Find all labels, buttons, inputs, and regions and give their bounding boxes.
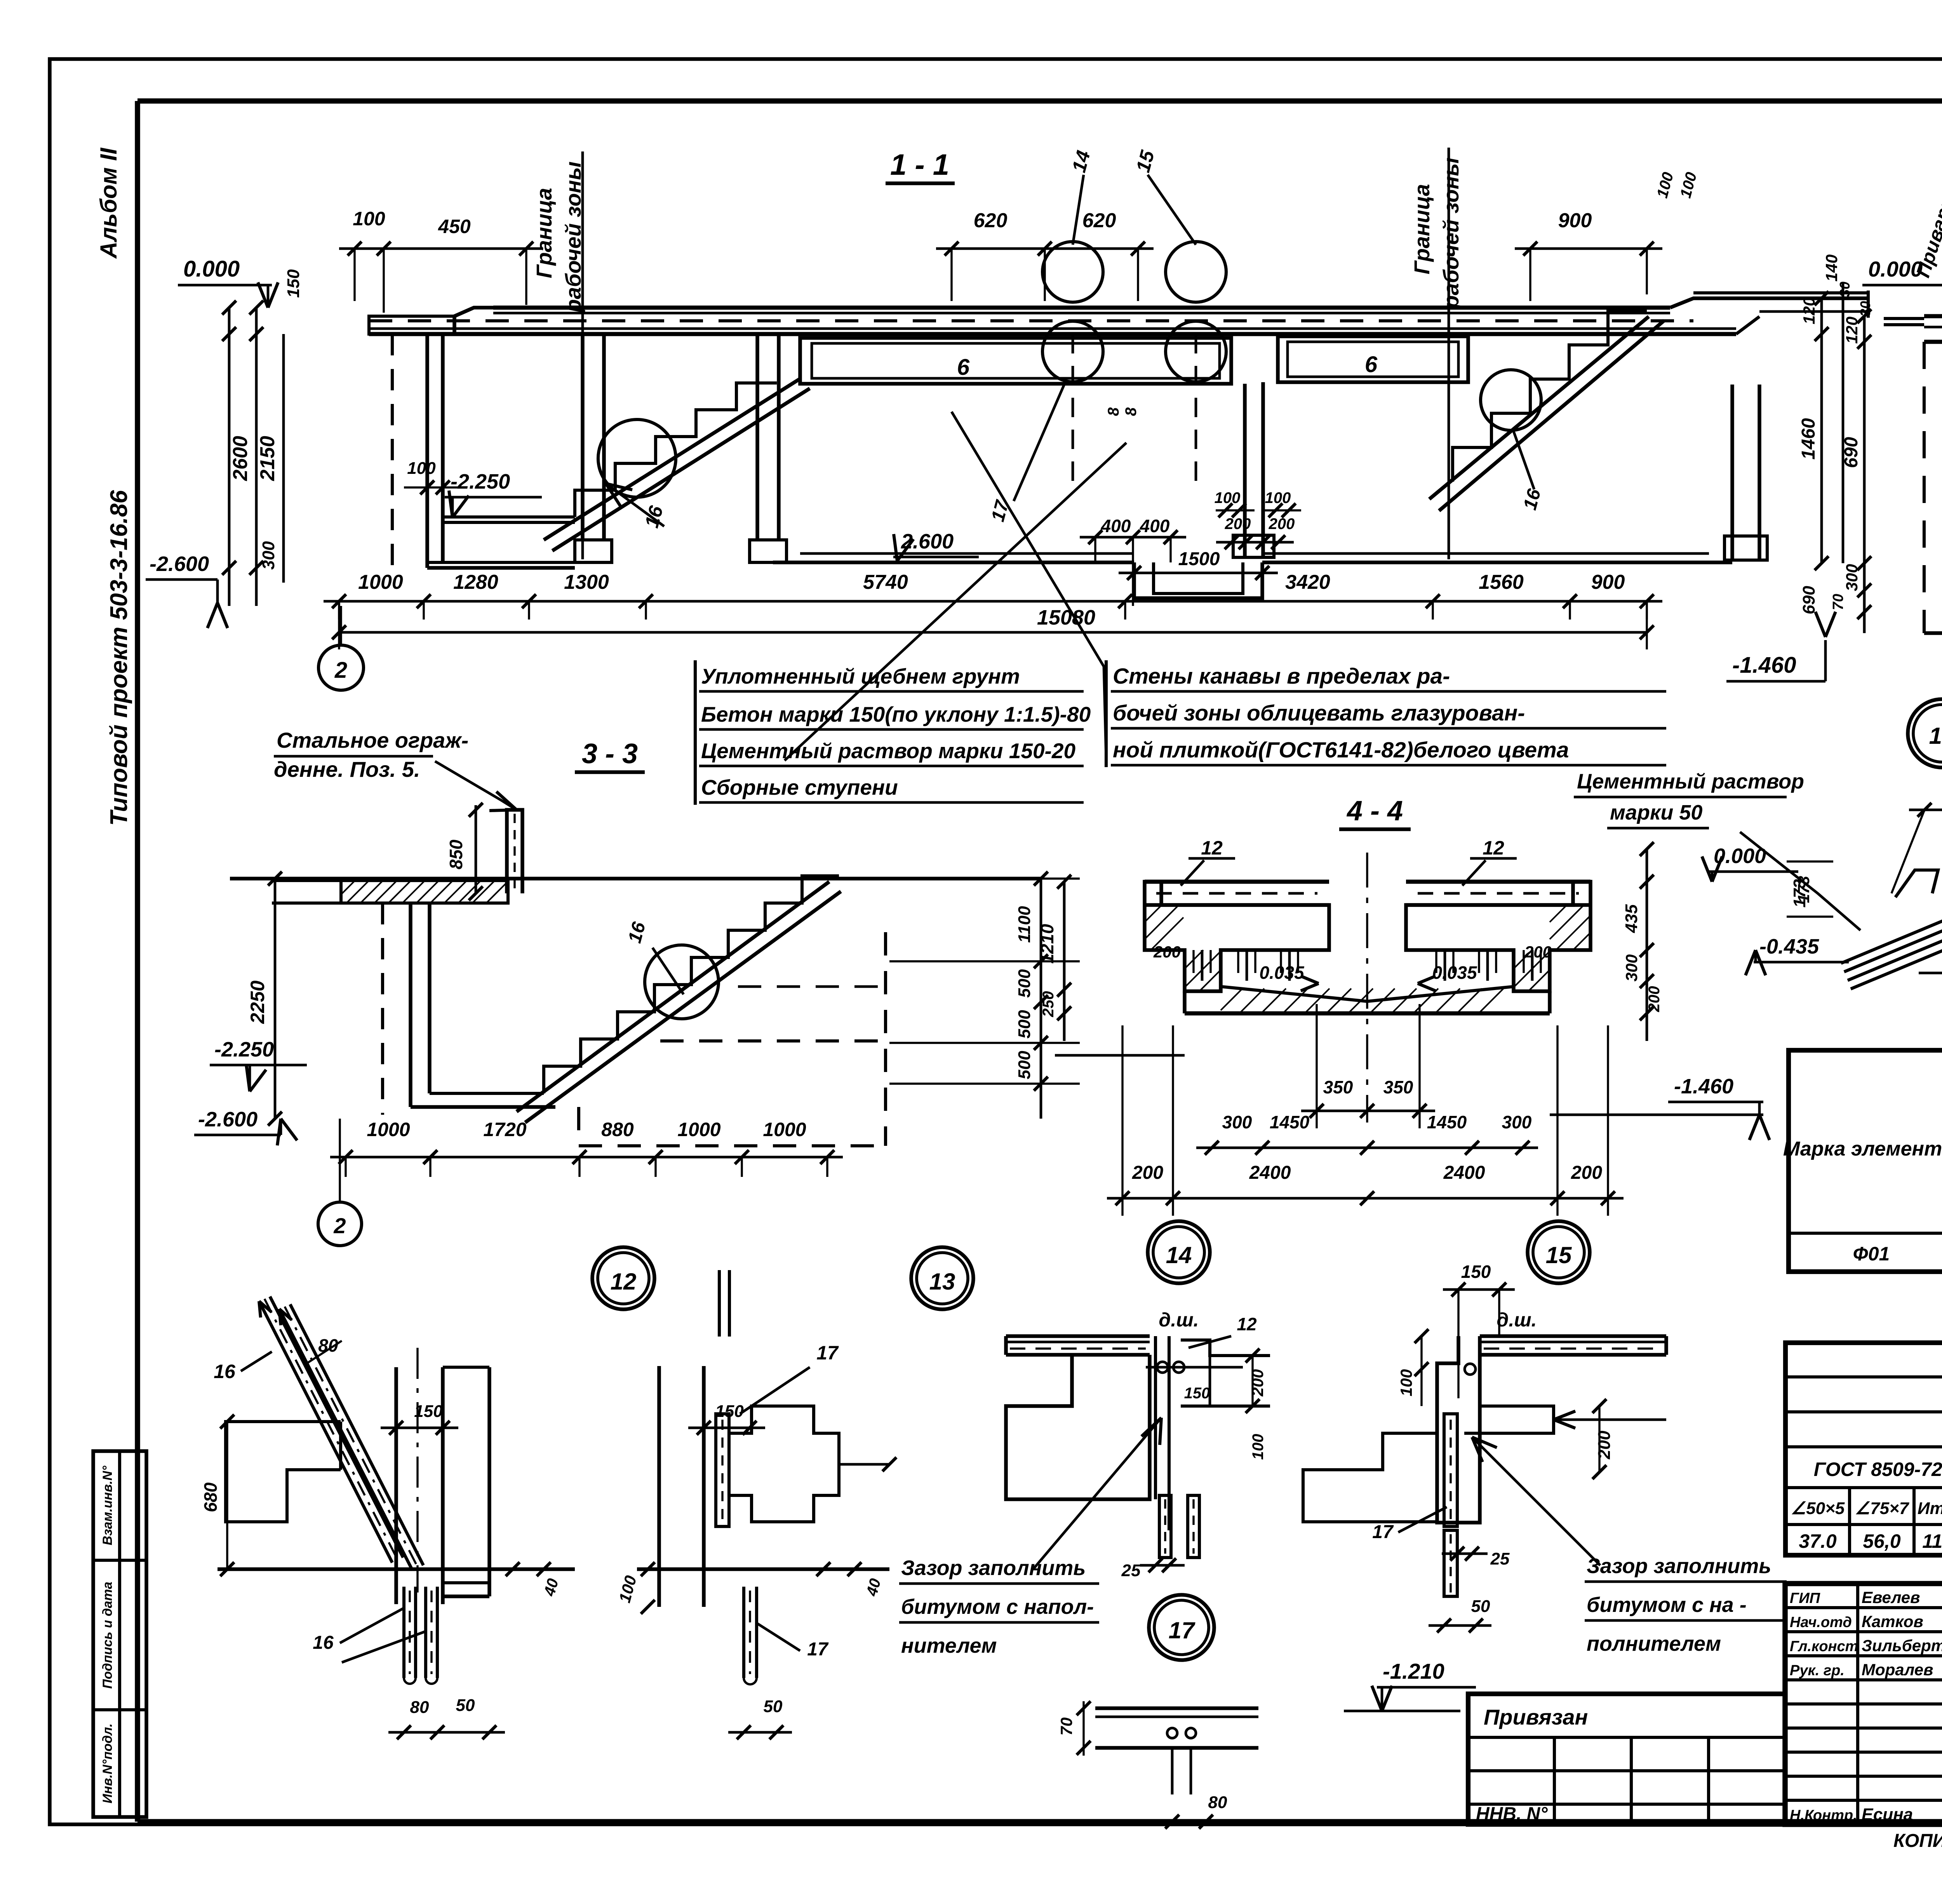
svg-text:2250: 2250: [247, 980, 268, 1024]
svg-text:100: 100: [353, 208, 385, 230]
svg-text:1000: 1000: [358, 571, 403, 593]
d.sh. detail right slab: [1480, 1334, 1666, 1338]
svg-text:15: 15: [1132, 148, 1159, 174]
3-3 dashed existing steps: [579, 1107, 889, 1146]
3-3 dim 850: [475, 805, 477, 893]
svg-text:КОПИРОВАЛ: СИДОРОВА: КОПИРОВАЛ: СИДОРОВА: [1893, 1831, 1942, 1851]
3-3 top slab hatched: [341, 881, 508, 903]
element 16 wall: [394, 1367, 398, 1604]
svg-text:100: 100: [1677, 171, 1700, 200]
svg-text:1000: 1000: [367, 1119, 410, 1140]
embed detail element 16 elevation: [259, 1301, 392, 1563]
d.sh. right embed bar: [1444, 1530, 1457, 1596]
1-1 right pit wall: [1730, 385, 1734, 559]
1-1 slab right end: [1670, 298, 1868, 308]
svg-text:1100: 1100: [1015, 906, 1034, 943]
svg-text:37.0: 37.0: [1799, 1530, 1837, 1552]
svg-text:Граница: Граница: [1410, 184, 1434, 275]
svg-text:1 - 1: 1 - 1: [890, 148, 949, 181]
svg-text:200: 200: [1248, 1369, 1267, 1397]
svg-text:70: 70: [1830, 594, 1846, 610]
4-4 right wall block: [1406, 882, 1590, 991]
svg-text:нителем: нителем: [901, 1634, 997, 1657]
drawing inner frame: [135, 101, 140, 1822]
svg-text:3 - 3: 3 - 3: [582, 738, 638, 769]
svg-text:120: 120: [1843, 317, 1861, 344]
svg-text:100: 100: [1654, 171, 1677, 200]
d.sh. detail left slab: [1006, 1334, 1150, 1338]
svg-text:Зильбертов: Зильбертов: [1862, 1636, 1942, 1655]
1-1 pit floor base -2.600: [427, 561, 575, 564]
svg-text:Типовой проект 503-3-16.86: Типовой проект 503-3-16.86: [106, 490, 132, 826]
title block signature table: [1785, 1584, 1942, 1824]
svg-text:ной плиткой(ГОСТ6141-82)белого: ной плиткой(ГОСТ6141-82)белого цвета: [1113, 738, 1569, 762]
element 16 right slab: [443, 1366, 489, 1369]
svg-text:15080: 15080: [1037, 606, 1095, 629]
svg-text:3420: 3420: [1285, 571, 1330, 593]
svg-text:50: 50: [764, 1697, 783, 1716]
svg-text:56,0: 56,0: [1863, 1530, 1901, 1552]
1-1 left stair detail circle 16: [598, 419, 676, 497]
svg-text:Бетон марки 150(по уклону 1:1.: Бетон марки 150(по уклону 1:1.5)-80: [701, 702, 1091, 726]
svg-text:12: 12: [1201, 837, 1223, 859]
1-1 axis 2: [318, 645, 364, 690]
svg-text:Зазор заполнить: Зазор заполнить: [1587, 1554, 1771, 1578]
embedded items table: [1785, 1343, 1942, 1555]
element 17 embed bar: [742, 1587, 745, 1678]
1-1 floor slab: [493, 306, 1670, 310]
svg-text:150: 150: [1461, 1262, 1491, 1282]
svg-text:350: 350: [1323, 1077, 1353, 1097]
svg-text:113.0: 113.0: [1922, 1530, 1942, 1552]
svg-text:Рук. гр.: Рук. гр.: [1790, 1662, 1845, 1679]
2-2 left dim chain: [1863, 316, 1866, 633]
d.sh. left embed bars: [1159, 1495, 1171, 1558]
svg-text:Сборные ступени: Сборные ступени: [701, 775, 898, 799]
svg-text:-1.460: -1.460: [1732, 653, 1796, 678]
1-1 working zone boundary right: [1448, 148, 1450, 559]
svg-text:200: 200: [1571, 1163, 1602, 1183]
svg-text:8: 8: [1105, 407, 1122, 416]
svg-text:д.ш.: д.ш.: [1497, 1309, 1537, 1331]
svg-text:350: 350: [1383, 1077, 1413, 1097]
1-1 left dim chain: [228, 308, 231, 606]
1-1 left stair: [575, 383, 777, 517]
svg-text:16: 16: [313, 1632, 334, 1653]
svg-text:880: 880: [601, 1119, 634, 1140]
svg-text:25: 25: [1490, 1549, 1510, 1568]
detail circle 12: [592, 1247, 654, 1309]
svg-text:300: 300: [1843, 564, 1861, 591]
1-1 sump leader: [952, 412, 1106, 760]
svg-text:6: 6: [1365, 352, 1378, 377]
1-1 sump: [1134, 562, 1262, 598]
svg-text:40: 40: [541, 1577, 562, 1598]
1-1 weld detail circles 14 15: [1042, 242, 1103, 302]
d.sh. right embedded plate: [1444, 1414, 1457, 1526]
svg-text:15: 15: [1546, 1242, 1572, 1268]
svg-text:100: 100: [1215, 489, 1241, 506]
svg-text:Стены канавы в пределах ра-: Стены канавы в пределах ра-: [1113, 664, 1450, 689]
svg-text:полнителем: полнителем: [1587, 1632, 1721, 1655]
svg-text:1000: 1000: [677, 1119, 720, 1140]
svg-text:-2.250: -2.250: [214, 1038, 274, 1061]
svg-text:620: 620: [974, 209, 1008, 232]
element 16 ground line: [218, 1567, 575, 1571]
4-4 level lines: [1055, 1054, 1185, 1057]
svg-text:битумом с напол-: битумом с напол-: [901, 1595, 1094, 1619]
svg-text:Есина: Есина: [1862, 1805, 1913, 1824]
svg-text:1560: 1560: [1479, 571, 1524, 593]
svg-text:ГОСТ 8509-72*: ГОСТ 8509-72*: [1814, 1458, 1942, 1480]
3-3 steel angle: [507, 810, 522, 893]
svg-text:173: 173: [1790, 879, 1809, 907]
element 16 left block: [226, 1422, 341, 1522]
svg-text:2: 2: [334, 658, 347, 683]
svg-text:200: 200: [1524, 943, 1552, 961]
svg-text:1500: 1500: [1178, 549, 1220, 569]
svg-text:100: 100: [1397, 1369, 1415, 1396]
detail circle 14: [1148, 1221, 1210, 1283]
1-1 slab left end plate: [369, 316, 454, 334]
svg-text:500: 500: [1015, 1010, 1034, 1039]
svg-text:100: 100: [407, 459, 436, 478]
svg-text:∠50×5: ∠50×5: [1791, 1499, 1845, 1518]
svg-text:140: 140: [1822, 254, 1841, 282]
svg-text:80: 80: [1208, 1793, 1227, 1812]
svg-text:Стальное ограж-: Стальное ограж-: [277, 728, 468, 752]
1-1 working zone boundary left: [581, 151, 584, 559]
svg-text:150: 150: [414, 1402, 443, 1421]
svg-text:6: 6: [957, 355, 970, 380]
svg-text:2.600: 2.600: [901, 530, 954, 553]
svg-text:13: 13: [929, 1269, 955, 1295]
svg-text:25: 25: [1121, 1561, 1141, 1580]
svg-text:1720: 1720: [483, 1119, 526, 1140]
svg-text:150: 150: [1184, 1385, 1210, 1402]
svg-text:690: 690: [1841, 437, 1862, 468]
svg-text:620: 620: [1082, 209, 1116, 232]
1-1 left pit wall: [391, 334, 394, 568]
svg-text:Зазор заполнить: Зазор заполнить: [901, 1556, 1086, 1580]
svg-text:1300: 1300: [564, 571, 609, 593]
svg-text:ГИП: ГИП: [1790, 1590, 1820, 1606]
svg-text:бочей зоны облицевать глазуров: бочей зоны облицевать глазурован-: [1113, 701, 1525, 726]
detail circle 15: [1528, 1221, 1590, 1283]
svg-text:0.035: 0.035: [1432, 962, 1477, 983]
d.sh. left block: [1006, 1355, 1150, 1499]
svg-text:40: 40: [863, 1577, 884, 1598]
svg-text:Приварить: Приварить: [1912, 166, 1942, 280]
detail circle 16: [1908, 699, 1942, 768]
svg-text:ННВ. N°: ННВ. N°: [1476, 1804, 1548, 1824]
d.sh. bottom plan detail: [1095, 1706, 1258, 1710]
svg-text:12: 12: [1483, 837, 1504, 859]
4-4 top slabs: [1145, 880, 1329, 884]
3-3 right dim chain: [1040, 879, 1042, 1119]
svg-text:200: 200: [1646, 986, 1663, 1013]
3-3 axis 2: [318, 1202, 362, 1246]
svg-text:1000: 1000: [763, 1119, 806, 1140]
svg-text:100: 100: [615, 1573, 640, 1605]
svg-text:30: 30: [1837, 282, 1853, 297]
svg-text:5740: 5740: [863, 571, 908, 593]
svg-text:300: 300: [1502, 1112, 1532, 1132]
steel consumption table: [1789, 1050, 1942, 1272]
svg-text:16: 16: [1520, 487, 1545, 512]
3-3 stairs: [544, 876, 839, 1093]
svg-text:-1.210: -1.210: [1383, 1659, 1444, 1683]
1-1 middle pillar: [1243, 384, 1247, 557]
4-4 embed studs: [1201, 950, 1204, 981]
svg-text:рабочей зоны: рабочей зоны: [561, 162, 585, 313]
svg-text:30: 30: [1857, 301, 1873, 317]
svg-text:Уплотненный щебнем грунт: Уплотненный щебнем грунт: [701, 664, 1020, 688]
1-1 right dim chains: [1820, 298, 1823, 563]
svg-text:50: 50: [456, 1696, 475, 1715]
notes block: channel walls tiling: [1105, 660, 1108, 767]
svg-text:250: 250: [1040, 991, 1057, 1018]
svg-text:Цементный раствор марки 150-20: Цементный раствор марки 150-20: [701, 739, 1075, 763]
1-1 total dim 15080: [339, 631, 1647, 634]
4-4 centerline: [1366, 853, 1368, 1123]
2-2 excavation dashed lines: [1923, 342, 1926, 633]
d.sh. joint left: [1154, 1336, 1157, 1499]
svg-text:денне. Поз. 5.: денне. Поз. 5.: [274, 757, 420, 781]
svg-text:Альбом II: Альбом II: [96, 147, 122, 259]
4-4 left dim chain: [1063, 882, 1066, 1041]
1-1 pit floor -2.250 slab: [443, 515, 575, 519]
svg-text:Гл.конст: Гл.конст: [1790, 1638, 1858, 1655]
svg-text:200: 200: [1132, 1163, 1163, 1183]
svg-text:200: 200: [1595, 1431, 1614, 1460]
svg-text:16: 16: [1929, 723, 1942, 749]
svg-text:690: 690: [1799, 586, 1818, 614]
svg-text:12: 12: [611, 1269, 637, 1295]
1-1 bottom dim row: [324, 600, 1662, 603]
svg-text:14: 14: [1166, 1242, 1192, 1268]
svg-text:1450: 1450: [1427, 1112, 1467, 1132]
margin stamp column: [93, 1451, 146, 1817]
svg-text:Подпись и дата: Подпись и дата: [100, 1582, 115, 1689]
svg-text:Инв.N°подл.: Инв.N°подл.: [100, 1723, 115, 1803]
svg-text:Ф01: Ф01: [1853, 1243, 1890, 1265]
svg-text:150: 150: [284, 269, 303, 298]
svg-text:Привязан: Привязан: [1484, 1705, 1588, 1729]
3-3 pit walls: [381, 903, 384, 1115]
detail circle 17: [1149, 1595, 1214, 1660]
4-4 right dim chain: [1646, 849, 1648, 1041]
svg-text:200: 200: [1269, 515, 1295, 533]
svg-text:200: 200: [1225, 515, 1251, 533]
detail circle 13: [911, 1247, 973, 1309]
svg-text:Граница: Граница: [532, 188, 556, 278]
svg-text:марки 50: марки 50: [1610, 801, 1702, 824]
svg-text:200: 200: [1153, 943, 1181, 961]
svg-text:-2.250: -2.250: [451, 470, 510, 493]
svg-text:д.ш.: д.ш.: [1159, 1309, 1199, 1331]
1-1 beams 6: [800, 338, 1231, 384]
svg-text:1280: 1280: [453, 571, 498, 593]
svg-text:∠75×7: ∠75×7: [1855, 1499, 1910, 1518]
svg-text:Марка элемента: Марка элемента: [1783, 1138, 1942, 1160]
svg-text:850: 850: [446, 839, 466, 869]
svg-text:Евелев: Евелев: [1862, 1588, 1920, 1606]
svg-text:300: 300: [259, 541, 278, 570]
svg-text:2400: 2400: [1249, 1163, 1291, 1183]
svg-text:0.000: 0.000: [183, 256, 240, 282]
svg-text:17: 17: [1372, 1522, 1394, 1542]
2-2 top slab: [1924, 314, 1942, 318]
svg-text:2400: 2400: [1443, 1163, 1485, 1183]
svg-text:2600: 2600: [229, 436, 252, 481]
svg-text:Моралев: Моралев: [1862, 1660, 1933, 1679]
svg-text:16: 16: [625, 920, 650, 945]
svg-text:900: 900: [1591, 571, 1625, 593]
svg-text:300: 300: [1622, 954, 1641, 982]
svg-text:-2.600: -2.600: [150, 552, 209, 576]
svg-text:12: 12: [1237, 1314, 1257, 1334]
svg-text:17: 17: [1169, 1617, 1195, 1643]
notes block: ground compaction: [694, 660, 697, 805]
svg-text:1450: 1450: [1270, 1112, 1310, 1132]
svg-text:-1.460: -1.460: [1674, 1075, 1733, 1098]
svg-text:500: 500: [1015, 969, 1034, 998]
svg-text:Н.Контр.: Н.Контр.: [1790, 1807, 1857, 1824]
svg-text:400: 400: [1140, 516, 1170, 536]
svg-text:300: 300: [1222, 1112, 1252, 1132]
svg-text:рабочей зоны: рабочей зоны: [1439, 158, 1463, 310]
svg-text:-0.435: -0.435: [1759, 935, 1819, 958]
1-1 channel floor: [773, 560, 1134, 564]
3-3 pit floor: [411, 1105, 555, 1109]
svg-text:1210: 1210: [1037, 924, 1057, 964]
svg-text:4 - 4: 4 - 4: [1346, 795, 1403, 827]
d.sh. right wall and block: [1437, 1336, 1480, 1523]
1-1 columns: [581, 334, 585, 540]
svg-text:2: 2: [333, 1213, 346, 1238]
3-3 stair circle 16: [645, 945, 719, 1019]
4-4 channel floor slab: [1183, 991, 1187, 1013]
svg-text:17: 17: [988, 498, 1013, 524]
svg-text:400: 400: [1101, 516, 1131, 536]
element 16 embed bars: [402, 1587, 405, 1678]
svg-text:70: 70: [1057, 1718, 1075, 1736]
3-3 ground line: [230, 877, 1041, 881]
svg-text:Взам.инв.N°: Взам.инв.N°: [100, 1465, 115, 1545]
4-4 left wall block: [1145, 882, 1329, 991]
embed detail element 17 elevation: [657, 1366, 661, 1607]
svg-text:17: 17: [816, 1342, 839, 1364]
svg-text:100: 100: [1265, 489, 1291, 506]
svg-text:50: 50: [1471, 1597, 1490, 1616]
svg-text:1460: 1460: [1798, 418, 1819, 459]
svg-text:500: 500: [1015, 1051, 1034, 1079]
svg-text:120: 120: [1800, 297, 1818, 324]
svg-text:Цементный раствор: Цементный раствор: [1577, 770, 1804, 793]
svg-text:680: 680: [200, 1482, 221, 1512]
svg-text:80: 80: [410, 1698, 429, 1717]
svg-text:17: 17: [807, 1639, 829, 1660]
svg-text:Нач.отд: Нач.отд: [1790, 1614, 1852, 1631]
svg-text:14: 14: [1068, 148, 1094, 174]
svg-text:Катков: Катков: [1862, 1612, 1923, 1631]
3-3 left dim 2250: [274, 879, 277, 1119]
svg-text:16: 16: [214, 1361, 236, 1382]
svg-text:435: 435: [1622, 904, 1641, 933]
svg-text:-2.600: -2.600: [198, 1108, 258, 1131]
svg-text:450: 450: [438, 216, 471, 237]
svg-text:битумом с на -: битумом с на -: [1587, 1593, 1747, 1617]
svg-text:8: 8: [1122, 407, 1140, 416]
1-1 right stair: [1453, 311, 1647, 482]
svg-text:900: 900: [1558, 209, 1592, 232]
svg-text:2150: 2150: [256, 436, 279, 481]
svg-text:100: 100: [1249, 1434, 1267, 1460]
svg-text:Итого: Итого: [1918, 1499, 1942, 1518]
privyazan box: [1468, 1694, 1785, 1824]
